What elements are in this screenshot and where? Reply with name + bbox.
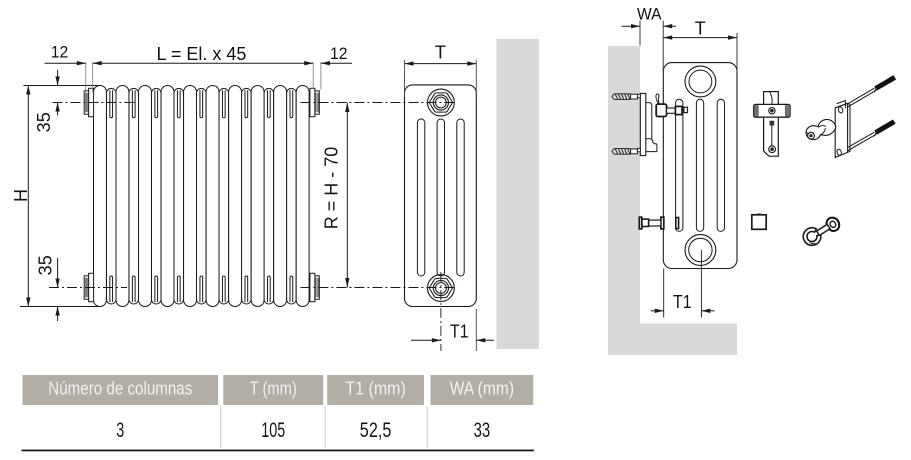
side view slots <box>417 119 424 276</box>
right view top hub <box>685 66 716 97</box>
wall (side view, middle) <box>497 39 540 349</box>
bracket head <box>656 104 666 116</box>
svg-text:35: 35 <box>36 255 56 275</box>
svg-text:H: H <box>11 189 31 202</box>
dim T1 (right view) <box>663 269 665 318</box>
radiator front view: section joint necks <box>110 90 113 118</box>
dim WA <box>639 21 641 46</box>
svg-text:L = El. x 45: L = El. x 45 <box>157 44 247 64</box>
svg-text:T: T <box>695 19 706 39</box>
dim T (right view) <box>736 33 738 71</box>
center axis dash-dot bottom <box>49 287 127 289</box>
bracket arm <box>646 103 652 139</box>
svg-text:T: T <box>435 43 446 63</box>
wall with floor ledge (right view) <box>608 46 737 355</box>
svg-text:Número de columnas: Número de columnas <box>48 379 192 399</box>
dim 12 right <box>312 62 314 90</box>
dim T1 (side view) <box>440 272 442 351</box>
bracket pin <box>667 108 678 113</box>
svg-text:52,5: 52,5 <box>360 419 392 442</box>
dim 35 top <box>57 70 59 86</box>
svg-text:33: 33 <box>474 419 491 442</box>
svg-text:T1: T1 <box>673 292 692 312</box>
radiator front view: wide front columns <box>94 86 107 307</box>
side view top hub <box>428 89 455 116</box>
table bottom border <box>22 450 534 452</box>
right view bottom hub <box>685 235 716 266</box>
top-left bushing <box>89 88 94 116</box>
bracket clamp on column <box>675 106 682 114</box>
svg-text:12: 12 <box>330 44 348 63</box>
wall anchor screw top <box>631 94 638 99</box>
dim H <box>23 85 99 87</box>
top-right bushing <box>310 88 315 116</box>
dim L = El. x 45 <box>93 62 314 64</box>
svg-text:35: 35 <box>34 112 54 132</box>
svg-text:R = H - 70: R = H - 70 <box>322 147 342 230</box>
svg-text:3: 3 <box>116 419 124 442</box>
bracket hook lever <box>656 94 659 104</box>
svg-text:WA (mm): WA (mm) <box>450 379 515 399</box>
dim 12 left <box>85 62 87 92</box>
svg-text:WA: WA <box>637 5 662 23</box>
part: wall bracket 3D with screws <box>842 88 875 107</box>
part: adjustable bracket front view <box>764 92 779 105</box>
part: small square insert <box>752 215 766 230</box>
radiator front view: narrow back columns <box>106 88 116 304</box>
radiator side view body <box>405 85 477 307</box>
right view slots <box>676 99 683 231</box>
drain valve plug <box>661 217 664 229</box>
side view bottom hub <box>428 275 455 302</box>
svg-text:T1 (mm): T1 (mm) <box>345 379 406 399</box>
part: pipe clip with bolt <box>824 215 842 233</box>
bottom-right bushing <box>310 273 315 301</box>
dim R = H - 70 <box>346 103 348 288</box>
svg-text:T1: T1 <box>450 321 469 341</box>
wall bracket plate <box>640 93 646 155</box>
svg-text:105: 105 <box>261 419 285 442</box>
svg-text:T (mm): T (mm) <box>250 379 297 399</box>
dim 35 bottom <box>57 258 59 288</box>
dim T (side view) <box>404 60 406 97</box>
svg-text:12: 12 <box>51 43 69 62</box>
table header row <box>23 375 219 405</box>
center axis dash-dot top <box>52 102 135 104</box>
bottom-left bushing <box>89 273 94 301</box>
radiator right view body <box>663 63 737 269</box>
wall anchor screw bottom <box>631 149 638 154</box>
